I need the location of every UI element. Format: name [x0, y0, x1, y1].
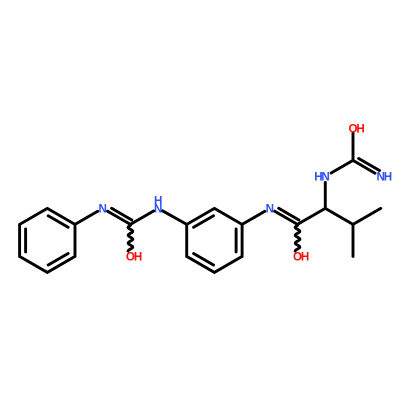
svg-text:H: H	[314, 170, 322, 183]
benzene ring B inner double-bond line 2	[235, 229, 238, 252]
double bond C5=N5 line1	[353, 160, 375, 173]
double bond N3=C2 line1	[275, 211, 298, 224]
bond C5-OH	[352, 133, 355, 160]
svg-text:H: H	[384, 170, 392, 183]
bond N2-ringB	[163, 211, 187, 225]
svg-text:H: H	[356, 122, 364, 135]
benzene ring B inner double-bond line 6	[194, 216, 214, 228]
bond C4-C6 methyl	[353, 208, 381, 224]
bond C3-C4	[325, 208, 353, 224]
bond C3-N4	[324, 182, 327, 208]
svg-text:N: N	[266, 202, 274, 215]
phenyl ring A inner double-bond line 5	[24, 229, 27, 252]
bond C4-C7 methyl	[352, 224, 355, 256]
benzene ring B hexagon outline	[187, 208, 242, 272]
svg-text:N: N	[321, 170, 329, 183]
bond ringB-N3	[242, 211, 265, 224]
bond N4-C5	[331, 160, 353, 173]
double bond N3=C2 line2	[279, 208, 299, 220]
double bond C5=N5 line2	[359, 159, 380, 171]
bond C2-C3	[298, 208, 326, 224]
svg-text:H: H	[134, 250, 142, 263]
benzene ring B inner double-bond line 4	[194, 254, 214, 266]
bond ringA-N1	[75, 211, 98, 224]
phenyl ring A inner double-bond line 1	[48, 216, 68, 228]
svg-text:H: H	[301, 250, 309, 263]
double bond N1=C1 line1	[108, 211, 131, 224]
phenyl ring A hexagon outline	[20, 208, 75, 272]
bond C1-N2	[130, 211, 153, 225]
wavy bond C1-OH	[128, 225, 133, 251]
svg-text:N: N	[99, 202, 107, 215]
double bond N1=C1 line2	[112, 208, 132, 220]
svg-text:H: H	[154, 194, 162, 207]
phenyl ring A inner double-bond line 3	[48, 254, 68, 266]
wavy bond C2-OH	[295, 225, 300, 251]
